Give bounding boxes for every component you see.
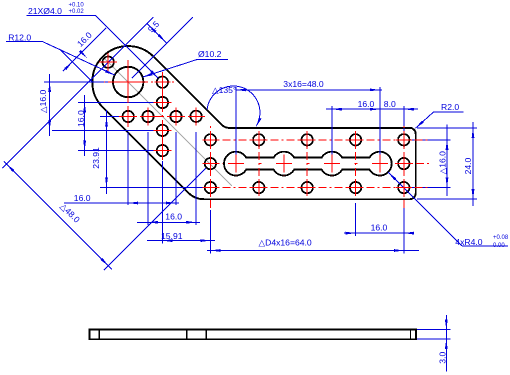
big hole D10.2 xyxy=(113,67,143,97)
arm axis centerline xyxy=(105,59,232,186)
red centerlines overlay xyxy=(203,139,430,141)
svg-text:△135°: △135° xyxy=(212,85,236,95)
svg-text:△D4x16=64.0: △D4x16=64.0 xyxy=(259,237,312,247)
body hole col2 bottom (D4) xyxy=(253,182,264,193)
svg-text:3.0: 3.0 xyxy=(438,352,448,364)
svg-text:16.0: 16.0 xyxy=(358,99,375,109)
svg-text:8.0: 8.0 xyxy=(384,99,396,109)
svg-text:+0.08: +0.08 xyxy=(493,235,509,241)
part outline (bracket top view) xyxy=(92,46,415,199)
extension line through hole A (45) xyxy=(3,17,154,168)
slot 4xR4 (center slot) xyxy=(224,152,392,176)
svg-text:Ø10.2: Ø10.2 xyxy=(198,49,222,59)
body hole col1 top (D4) xyxy=(205,134,216,145)
svg-text:△16.0: △16.0 xyxy=(38,89,48,113)
svg-text:16.0: 16.0 xyxy=(371,222,388,232)
side view edge projection lines xyxy=(98,329,100,339)
svg-text:21XØ4.0: 21XØ4.0 xyxy=(28,6,62,16)
svg-text:24.0: 24.0 xyxy=(463,157,473,174)
body hole col3 bottom (D4) xyxy=(302,182,313,193)
body hole col1 bottom (D4) xyxy=(205,182,216,193)
body hole col4 bottom (D4) xyxy=(350,182,361,193)
body hole col5 middle (D4) xyxy=(398,158,409,169)
body hole col3 top (D4) xyxy=(302,134,313,145)
hole D (arm D4) xyxy=(123,111,134,122)
svg-text:△16.0: △16.0 xyxy=(438,151,448,175)
hole C (arm D4) xyxy=(157,97,168,108)
hole I (arm D4) xyxy=(157,145,168,156)
svg-text:16.0: 16.0 xyxy=(165,212,182,222)
svg-text:+0.02: +0.02 xyxy=(69,9,85,15)
body hole col5 bottom (D4) xyxy=(398,182,409,193)
dim 3.0 side view xyxy=(417,329,451,331)
hole A (arm D4) xyxy=(103,57,114,68)
hole F (arm D4) xyxy=(170,111,181,122)
svg-text:R2.0: R2.0 xyxy=(441,102,459,112)
body hole col5 top (D4) xyxy=(398,134,409,145)
body hole col4 top (D4) xyxy=(350,134,361,145)
body hole col2 top (D4) xyxy=(253,134,264,145)
hole H (arm D4) xyxy=(157,125,168,136)
body hole col1 middle (D4) xyxy=(205,158,216,169)
hole G (arm D4) xyxy=(190,111,201,122)
svg-text:+0.10: +0.10 xyxy=(69,3,85,9)
svg-text:3x16=48.0: 3x16=48.0 xyxy=(283,79,324,89)
svg-text:16.0: 16.0 xyxy=(74,193,91,203)
side view bar outline xyxy=(90,329,416,339)
hole B (arm D4) xyxy=(157,77,168,88)
hole E (arm D4) xyxy=(142,111,153,122)
